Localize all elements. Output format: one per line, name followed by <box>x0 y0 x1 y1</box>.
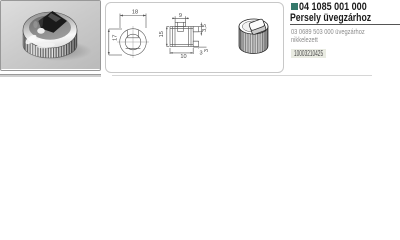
svg-text:3,5: 3,5 <box>202 24 208 32</box>
centerlines <box>117 26 149 58</box>
svg-text:3: 3 <box>199 51 202 57</box>
slot <box>127 30 129 38</box>
highlight <box>37 28 45 34</box>
teal bullet <box>291 3 298 10</box>
rim bright crescent <box>24 33 38 46</box>
labels <box>112 10 209 60</box>
drawing box <box>105 2 284 73</box>
dark slot block <box>39 11 68 33</box>
title <box>299 1 367 13</box>
svg-text:17: 17 <box>112 35 118 41</box>
svg-text:10: 10 <box>180 54 186 60</box>
shadow <box>26 41 92 61</box>
rule <box>290 24 400 25</box>
knurled lower body <box>23 30 77 58</box>
svg-text:9: 9 <box>179 13 182 19</box>
code box <box>291 49 326 58</box>
stub (slot) on top <box>175 22 186 26</box>
next row hints at bottom <box>0 74 101 77</box>
body <box>170 27 193 47</box>
dim 3,5 right <box>199 26 203 28</box>
dim 9 top <box>174 16 176 22</box>
svg-text:18: 18 <box>132 10 138 16</box>
dim 17 left <box>109 28 122 30</box>
dim 10 bottom <box>169 48 171 54</box>
svg-text:3: 3 <box>204 49 210 52</box>
flange squares right <box>193 27 198 32</box>
outer circle <box>120 29 147 56</box>
photo box <box>0 0 101 71</box>
top face <box>29 15 71 39</box>
chrome rim (top band) <box>23 12 77 48</box>
dim 18 top <box>119 14 121 29</box>
dim 15 left <box>167 26 170 28</box>
svg-text:15: 15 <box>159 31 165 37</box>
inner circle <box>125 34 141 50</box>
dim 3 bottom right <box>198 47 200 50</box>
small text <box>291 27 365 36</box>
chord <box>126 47 141 49</box>
